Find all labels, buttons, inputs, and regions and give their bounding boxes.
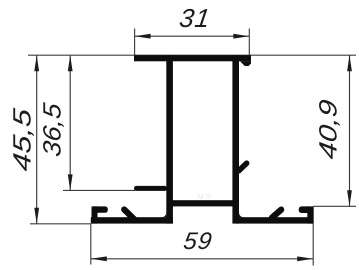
profile: left wall	[166, 55, 173, 223]
profile: web between walls	[170, 200, 235, 206]
extension line 31 left	[134, 29, 136, 57]
arrow 40,9 top	[347, 55, 352, 71]
extension line 31 right	[248, 29, 250, 57]
extension line 59 left	[90, 224, 92, 265]
arrow 36,5 top	[68, 55, 73, 71]
profile: right wall nub	[239, 163, 247, 171]
arrow 31 right	[233, 34, 249, 39]
profile: right base flange	[236, 217, 314, 223]
svg-text:45,5: 45,5	[9, 106, 37, 173]
arrow 36,5 bottom	[68, 174, 73, 190]
profile: right end hook bar	[299, 206, 314, 213]
profile: top flange right lip	[240, 61, 251, 66]
profile: left mid flange	[134, 186, 167, 191]
profile: right diagonal hook	[272, 210, 281, 218]
extension line 59 right	[312, 206, 314, 265]
extension line top (shared by 45,5 36,5 40,9)	[28, 54, 356, 56]
profile: right end hook vertical	[307, 206, 313, 223]
dimension line 40,9	[349, 55, 351, 206]
extension line bottom-left (45,5 bottom)	[30, 223, 91, 225]
profile: left diagonal hook	[124, 210, 134, 219]
profile: left wall-base fillet	[161, 212, 166, 217]
extension line mid-right (40,9 bottom)	[313, 205, 356, 207]
profile: right wall-base fillet	[239, 212, 244, 217]
profile: left base flange	[91, 217, 173, 223]
dimension line 59	[91, 258, 313, 260]
arrow 45,5 top	[34, 55, 39, 71]
dimension line 45,5	[36, 55, 38, 224]
svg-text:36,5: 36,5	[39, 100, 67, 158]
arrow 31 left	[135, 34, 151, 39]
dimension line 36,5	[69, 55, 71, 190]
svg-text:31: 31	[178, 3, 213, 33]
profile: top flange	[134, 55, 251, 61]
arrow 40,9 bottom	[347, 190, 352, 206]
profile: right wall	[232, 55, 239, 223]
arrow 59 left	[91, 256, 107, 261]
profile: left end hook vertical	[92, 206, 98, 223]
arrow 45,5 bottom	[34, 208, 39, 224]
svg-text:59: 59	[182, 228, 214, 255]
profile: left end hook bar	[92, 206, 108, 212]
arrow 59 right	[297, 256, 313, 261]
svg-text:40,9: 40,9	[315, 98, 343, 161]
dimension line 31	[135, 35, 250, 37]
extension line mid-left (36,5 bottom)	[63, 189, 135, 191]
svg-text:MS: MS	[198, 194, 213, 201]
